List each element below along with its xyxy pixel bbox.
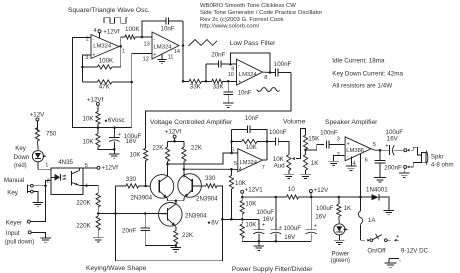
svg-text:-: - xyxy=(92,37,94,43)
svg-text:22K: 22K xyxy=(182,232,194,239)
node: pin 5 junction xyxy=(230,168,233,171)
svg-text:+12Vf: +12Vf xyxy=(102,165,119,172)
+12Vf source (VCA) xyxy=(165,129,182,142)
ground (200nF) xyxy=(374,178,386,182)
node: left collector xyxy=(166,163,169,166)
wire: ground rail xyxy=(242,240,311,243)
pin 9 label xyxy=(231,66,234,72)
ground (pin 2) xyxy=(328,161,339,165)
svg-text:6: 6 xyxy=(365,157,368,163)
wire: key top contact to node xyxy=(33,185,45,187)
wire: Q3 base bar entry xyxy=(159,213,168,215)
speaker positive terminal xyxy=(404,147,422,155)
wire: node down to keyer input xyxy=(45,186,47,222)
svg-text:1: 1 xyxy=(45,162,48,168)
resistor 15K xyxy=(303,135,320,150)
svg-text:Voltage Controlled Amplifier: Voltage Controlled Amplifier xyxy=(150,119,233,126)
svg-text:4: 4 xyxy=(85,184,88,190)
svg-text:Low Pass Filter: Low Pass Filter xyxy=(230,40,276,47)
svg-text:Key: Key xyxy=(15,145,27,152)
node B (to pin 10) xyxy=(227,80,237,83)
wire: LPF output to VCA input xyxy=(146,73,291,149)
svg-text:Keying/Wave Shape: Keying/Wave Shape xyxy=(86,265,147,272)
svg-text:+12V: +12V xyxy=(314,187,329,194)
keyer input terminal xyxy=(27,220,45,223)
svg-text:10K: 10K xyxy=(246,144,258,151)
capacitor 200nF (zobel) xyxy=(375,150,402,177)
svg-text:Idle Current: 18ma: Idle Current: 18ma xyxy=(332,58,385,65)
node A (between 33Ks) xyxy=(205,80,208,83)
svg-text:33K: 33K xyxy=(213,83,225,90)
node: divider mid xyxy=(241,218,244,221)
node: 15K/1K junction xyxy=(304,149,307,152)
svg-text:Input: Input xyxy=(6,230,20,237)
svg-text:100uF: 100uF xyxy=(316,205,334,212)
section title: Square/Triangle Wave Osc. xyxy=(68,7,150,14)
resistor 33K (second) xyxy=(206,79,228,90)
svg-text:6Vosc: 6Vosc xyxy=(108,117,125,124)
svg-text:4: 4 xyxy=(239,167,242,173)
svg-text:22K: 22K xyxy=(152,145,164,152)
potentiometer 10K Aud (volume) xyxy=(273,155,291,174)
svg-text:2: 2 xyxy=(47,178,50,184)
node: U1D output xyxy=(182,44,185,47)
svg-text:750: 750 xyxy=(46,130,57,137)
svg-text:10: 10 xyxy=(228,72,234,78)
node: keying/330 junction xyxy=(114,212,117,215)
svg-text:LM324: LM324 xyxy=(240,160,257,166)
section title: Speaker Amplifier xyxy=(325,119,378,126)
section title: Low Pass Filter xyxy=(230,40,276,47)
svg-text:Power Supply Filter/Divider: Power Supply Filter/Divider xyxy=(232,266,313,273)
node +6Vosc xyxy=(97,117,125,129)
pin 3 label xyxy=(337,137,340,143)
wire: +12V rail to LM386/diode xyxy=(311,196,362,199)
triangle wave glyph xyxy=(189,40,218,47)
resistor 10K (divider top) xyxy=(83,106,101,128)
node: U1D inverting input xyxy=(141,36,152,39)
svg-text:Key: Key xyxy=(7,189,19,196)
capacitor 100uF 16V (osc bias filter) xyxy=(109,126,142,149)
transistor Q2 2N3904 (diff pair right, mirrored) xyxy=(178,174,202,198)
svg-text:5: 5 xyxy=(373,142,376,148)
ground (supply) xyxy=(254,241,264,250)
switch On/Off xyxy=(361,234,391,242)
label 9-12V DC xyxy=(401,248,429,255)
svg-text:+: + xyxy=(279,225,282,231)
node: pin 6 junction xyxy=(230,152,233,155)
ground (tail 22K) xyxy=(171,244,182,252)
svg-text:12: 12 xyxy=(143,57,149,63)
svg-text:220K: 220K xyxy=(76,199,91,206)
resistor 22K (left collector load) xyxy=(152,141,169,164)
svg-text:2N3904: 2N3904 xyxy=(130,195,152,202)
svg-text:2N3904: 2N3904 xyxy=(196,196,218,203)
capacitor 10nF (integrator feedback) xyxy=(142,17,183,45)
node: +12V junction xyxy=(310,196,313,199)
svg-text:100K: 100K xyxy=(99,58,114,65)
wire: volume to speaker amp xyxy=(306,144,325,150)
wire: 47K riser to pin 12 and +6Vosc xyxy=(130,53,152,127)
wire: pin 5 to +12Vf xyxy=(83,165,118,172)
svg-text:Manual: Manual xyxy=(4,177,24,184)
svg-text:16V: 16V xyxy=(263,216,275,223)
resistor 1K (divider) xyxy=(303,150,319,174)
capacitor 100nF (LM386 input) xyxy=(320,129,344,148)
op-amp U1B LM324 (VCA) xyxy=(238,149,263,173)
capacitor 100uF 16V (output coupling) xyxy=(380,129,404,155)
capacitor 100nF (VCA output coupling) xyxy=(267,129,289,155)
svg-text:+12Vf: +12Vf xyxy=(103,28,120,35)
resistor 750 xyxy=(35,128,57,150)
LED Key Down (red) xyxy=(32,151,46,162)
svg-text:http://www.solorb.com/: http://www.solorb.com/ xyxy=(200,24,260,30)
svg-text:13: 13 xyxy=(144,42,150,48)
node: 20nF tap xyxy=(144,212,147,215)
label: Power (green) xyxy=(331,250,350,264)
ground (power LED) xyxy=(334,240,345,244)
resistor 22K (right collector load) xyxy=(182,141,203,169)
svg-text:Aud: Aud xyxy=(274,163,286,170)
resistor 10 (supply decoupling) xyxy=(242,186,311,199)
svg-text:LM324: LM324 xyxy=(239,72,258,78)
wire: Q2 collector xyxy=(183,169,185,178)
resistor 100K (U1A feedback) xyxy=(82,46,120,69)
svg-text:10K: 10K xyxy=(130,151,142,158)
pin 6 supply drop xyxy=(361,153,368,197)
svg-text:+: + xyxy=(314,224,317,230)
pin 10 label xyxy=(228,72,234,78)
resistor 47K (hysteresis) xyxy=(82,67,131,91)
ground (osc bias) xyxy=(109,148,120,158)
pushbutton manual key xyxy=(27,184,33,193)
ground (DC input) xyxy=(385,263,397,267)
svg-text:2: 2 xyxy=(337,152,340,158)
svg-text:On/Off: On/Off xyxy=(367,248,385,255)
DC input positive terminal xyxy=(394,234,399,242)
pin 1 label xyxy=(122,49,125,55)
transistor Q1 2N3904 (diff pair left) xyxy=(150,175,174,199)
svg-text:10K: 10K xyxy=(83,139,95,146)
wire: +6Vosc rail xyxy=(98,127,132,129)
wire: Q1 base entry xyxy=(146,185,157,187)
svg-text:10nF: 10nF xyxy=(161,26,175,33)
svg-text:2N3904: 2N3904 xyxy=(185,212,207,219)
resistor 10K (VCA feedback) xyxy=(232,139,267,151)
pin 4 power stub +12Vf xyxy=(93,28,119,38)
svg-text:LM386: LM386 xyxy=(346,148,364,154)
svg-text:100nF: 100nF xyxy=(320,129,338,136)
sine wave glyph xyxy=(257,88,280,92)
svg-text:10nF: 10nF xyxy=(238,89,252,96)
label: Spkr 4-8 ohm xyxy=(431,154,454,169)
node: keying junction xyxy=(97,212,100,215)
+12Vf source (osc divider) xyxy=(87,96,104,105)
pin 14 label xyxy=(174,49,180,55)
svg-text:+12V1: +12V1 xyxy=(245,186,264,193)
node: VCA output xyxy=(266,140,269,143)
svg-text:Speaker Amplifier: Speaker Amplifier xyxy=(325,119,378,126)
ground (manual key) xyxy=(32,202,43,206)
svg-text:200nF: 200nF xyxy=(384,165,402,172)
wire: 330 corner riser xyxy=(115,186,117,214)
wire: left collector to pin 6 xyxy=(168,153,232,164)
svg-text:+12Vf: +12Vf xyxy=(87,96,104,103)
wire: emitters join xyxy=(168,198,184,202)
wire: pin 4 emitter to 220K divider xyxy=(79,185,98,193)
svg-text:22K: 22K xyxy=(191,145,203,152)
optocoupler 4N35 xyxy=(51,159,83,194)
ground (220K) xyxy=(93,238,104,242)
wiper: volume pot xyxy=(292,129,306,161)
wire: right collector to pin 5 xyxy=(184,168,232,170)
label 2N3904 (Q3) xyxy=(185,212,207,219)
svg-text:+12Vf: +12Vf xyxy=(165,129,182,136)
resistor 10K (pin5 bias) xyxy=(229,169,247,219)
resistor 10K (divider bottom) xyxy=(83,128,115,150)
svg-text:220K: 220K xyxy=(76,223,91,230)
resistor 1K (power LED) xyxy=(337,197,352,223)
svg-text:16V: 16V xyxy=(284,234,296,241)
svg-text:+: + xyxy=(396,234,399,240)
ground (10nF) xyxy=(223,103,234,107)
capacitor 100uF 16V (+6V filter) xyxy=(253,209,274,242)
+12V source (right) xyxy=(309,187,329,197)
wire: LED cathode to 4N35 pin 1 xyxy=(38,162,51,169)
pin 4 label xyxy=(85,184,88,190)
svg-text:330: 330 xyxy=(205,175,216,182)
node: pin3 junction xyxy=(81,66,84,69)
svg-text:47K: 47K xyxy=(99,84,111,91)
+12V1 source xyxy=(241,186,264,197)
resistor 10K (VCA input) xyxy=(130,148,148,186)
ground (1K) xyxy=(300,174,311,178)
svg-text:Power: Power xyxy=(332,250,350,257)
svg-text:All resistors are 1/4W: All resistors are 1/4W xyxy=(332,83,392,90)
svg-text:Spkr: Spkr xyxy=(431,154,444,161)
node: LM386 output xyxy=(371,149,381,152)
svg-text:16V: 16V xyxy=(387,136,399,143)
node: LPF output xyxy=(263,71,272,74)
speaker negative terminal xyxy=(404,162,422,168)
capacitor 20nF (keying shape) xyxy=(122,214,176,246)
svg-text:11: 11 xyxy=(168,55,174,61)
node: +12V1 junction xyxy=(241,196,244,199)
svg-text:33K: 33K xyxy=(190,83,202,90)
svg-text:Down: Down xyxy=(14,154,30,161)
svg-text:4: 4 xyxy=(93,28,96,34)
svg-text:-: - xyxy=(238,63,240,69)
svg-text:Keyer: Keyer xyxy=(6,219,22,226)
node: LPF input from osc xyxy=(182,80,185,83)
svg-text:20nF: 20nF xyxy=(122,228,136,235)
ground (keyer jack) xyxy=(40,238,51,242)
svg-text:1K: 1K xyxy=(311,160,319,167)
resistor 10K (supply divider top) xyxy=(240,197,257,219)
svg-text:16V: 16V xyxy=(126,138,138,145)
op-amp U1D LM324 (integrator) xyxy=(152,32,179,59)
fuse 1A xyxy=(358,197,376,240)
pin 12 label xyxy=(143,57,149,63)
node: right collector xyxy=(183,168,186,171)
svg-text:16V: 16V xyxy=(315,214,327,221)
wire: keying line to Q3 base xyxy=(98,213,167,215)
svg-text:5: 5 xyxy=(234,161,237,167)
capacitor 20nF (Sallen-Key) xyxy=(206,52,231,82)
pin 2 label xyxy=(86,36,89,42)
svg-text:4-8 ohm: 4-8 ohm xyxy=(431,161,454,168)
resistor 330 (Q2 base) xyxy=(205,175,222,220)
ground (pin 4) xyxy=(346,166,357,170)
capacitor 10nF (VCA feedback) xyxy=(232,115,267,141)
svg-text:10K: 10K xyxy=(245,222,257,229)
ground (diode) xyxy=(384,210,395,214)
svg-text:4N35: 4N35 xyxy=(58,159,73,166)
pin 8 label xyxy=(264,75,267,81)
svg-text:+: + xyxy=(347,141,350,147)
pin 6 label xyxy=(231,147,238,153)
svg-text:Side Tone Generator / Code Pra: Side Tone Generator / Code Practice Osci… xyxy=(200,10,322,16)
svg-text:Key Down Current: 42ma: Key Down Current: 42ma xyxy=(332,70,403,77)
node: U1A output xyxy=(119,45,122,48)
wire: LPF feedback loop xyxy=(231,53,271,73)
capacitor 10nF (LPF shunt) xyxy=(223,81,251,102)
svg-text:1: 1 xyxy=(122,49,125,55)
square wave glyph xyxy=(104,18,128,24)
op-amp U2 LM386 xyxy=(345,137,371,161)
pin 4 to ground xyxy=(352,157,356,167)
svg-text:1N4001: 1N4001 xyxy=(366,186,388,193)
pin 11 ground xyxy=(158,54,174,64)
notes text xyxy=(332,58,403,90)
section title: Volume xyxy=(283,119,306,126)
node: keying input node xyxy=(44,178,49,187)
svg-text:6V: 6V xyxy=(211,220,219,227)
wire: +6V rail xyxy=(222,218,258,221)
label: Manual Key xyxy=(4,177,24,196)
wire: oscillator output down to LPF xyxy=(182,46,184,82)
section title: Power Supply Filter/Divider xyxy=(232,266,313,273)
svg-text:7: 7 xyxy=(262,165,265,171)
op-amp U1A LM324 (oscillator comparator) xyxy=(91,35,119,59)
svg-text:10nF: 10nF xyxy=(245,115,259,122)
svg-text:8: 8 xyxy=(264,75,267,81)
pin 5 label xyxy=(231,161,237,169)
svg-text:14: 14 xyxy=(174,49,180,55)
pin 5 label xyxy=(373,142,376,148)
svg-text:10K: 10K xyxy=(245,200,257,207)
label: Keyer Input (pull down) xyxy=(5,219,34,245)
resistor 22K (tail) xyxy=(174,231,194,248)
svg-text:+12V: +12V xyxy=(30,111,45,118)
resistor 330 (Q1 base) xyxy=(116,176,146,188)
svg-text:100nF: 100nF xyxy=(274,61,292,68)
DC input negative terminal xyxy=(389,258,401,265)
ground (speaker return) xyxy=(399,168,410,177)
wire: power LED to ground xyxy=(338,235,340,240)
svg-text:+: + xyxy=(238,80,241,86)
wire: key bottom contact to ground xyxy=(33,192,38,202)
svg-text:1K: 1K xyxy=(344,205,352,212)
wire: Q2 base entry xyxy=(192,185,206,187)
svg-text:(red): (red) xyxy=(14,163,27,169)
svg-text:Square/Triangle Wave Osc.: Square/Triangle Wave Osc. xyxy=(68,7,150,14)
svg-text:100uF: 100uF xyxy=(284,225,302,232)
+12V source (key LED) xyxy=(30,111,45,131)
resistor 33K (first) xyxy=(183,79,206,90)
label 2N3904 (Q2) xyxy=(196,196,218,203)
pin 5 label xyxy=(85,163,88,169)
svg-text:1A: 1A xyxy=(368,217,376,224)
pin 3 label xyxy=(85,55,88,61)
label 2N3904 (Q1) xyxy=(130,195,152,202)
svg-text:-: - xyxy=(399,258,401,265)
svg-text:+: + xyxy=(262,222,265,228)
pin 2 to ground xyxy=(334,152,345,161)
label: Key Down (red) xyxy=(14,145,30,169)
svg-text:-: - xyxy=(153,37,155,43)
svg-text:9-12V DC: 9-12V DC xyxy=(401,248,429,255)
wire: pin3 stub xyxy=(82,55,91,67)
node +6V xyxy=(208,218,224,227)
diode 1N4001 xyxy=(361,186,389,200)
svg-text:+: + xyxy=(118,132,121,138)
svg-text:10: 10 xyxy=(288,186,295,193)
transistor Q3 2N3904 (tail current source) xyxy=(159,203,183,227)
LED Power (green) xyxy=(334,224,348,235)
wire: Q1 collector xyxy=(167,164,169,176)
svg-text:+: + xyxy=(385,143,388,149)
svg-text:(green): (green) xyxy=(331,258,350,264)
svg-text:Volume: Volume xyxy=(283,119,306,126)
capacitor 100uF 16V (+12V1 filter) xyxy=(270,196,301,242)
svg-text:Rev 2c (c)2003 G. Forrest Coo: Rev 2c (c)2003 G. Forrest Cook xyxy=(200,17,284,23)
label On/Off xyxy=(367,248,385,255)
svg-text:20nF: 20nF xyxy=(211,52,225,59)
capacitor 100uF 16V (+12V filter) xyxy=(306,197,334,241)
section title: Voltage Controlled Amplifier xyxy=(150,119,233,126)
wire: keying node to +6V rail (bottom run) xyxy=(116,214,223,261)
capacitor 100nF (LPF output) xyxy=(270,61,292,76)
speaker Spkr 4-8 ohm xyxy=(421,151,428,165)
wire: Q3 collector to emitters xyxy=(175,201,177,204)
node: Q1 base xyxy=(144,185,147,188)
node: feedback left xyxy=(230,129,233,153)
resistor 220K (lower) xyxy=(76,214,100,238)
svg-text:100uF: 100uF xyxy=(257,209,275,216)
wire: pin2 to +6Vosc rail xyxy=(73,38,99,128)
svg-text:LM324: LM324 xyxy=(93,44,112,50)
svg-text:(pull down): (pull down) xyxy=(5,239,34,245)
resistor 10K (supply divider bottom) xyxy=(240,219,257,241)
wire: Q3 emitter down xyxy=(175,227,177,231)
svg-text:+: + xyxy=(153,52,156,58)
svg-text:+: + xyxy=(92,52,95,58)
keyer ground terminal xyxy=(28,231,45,238)
op-amp U1C LM324 (low pass filter) xyxy=(237,59,263,85)
svg-text:3: 3 xyxy=(85,55,88,61)
section title: Keying/Wave Shape xyxy=(86,265,147,272)
resistor 220K (upper) xyxy=(76,193,100,214)
svg-text:3: 3 xyxy=(337,137,340,143)
svg-text:LM324: LM324 xyxy=(154,45,173,51)
svg-text:WB0RIO Smooth Tone Clickless: WB0RIO Smooth Tone Clickless CW xyxy=(200,3,296,9)
wire: diode to ground xyxy=(379,197,389,210)
wire: node to 4N35 pin 2 xyxy=(46,180,52,185)
ground (volume pot) xyxy=(284,174,295,178)
svg-text:15K: 15K xyxy=(308,136,320,143)
wire: 22K tee xyxy=(168,140,184,143)
